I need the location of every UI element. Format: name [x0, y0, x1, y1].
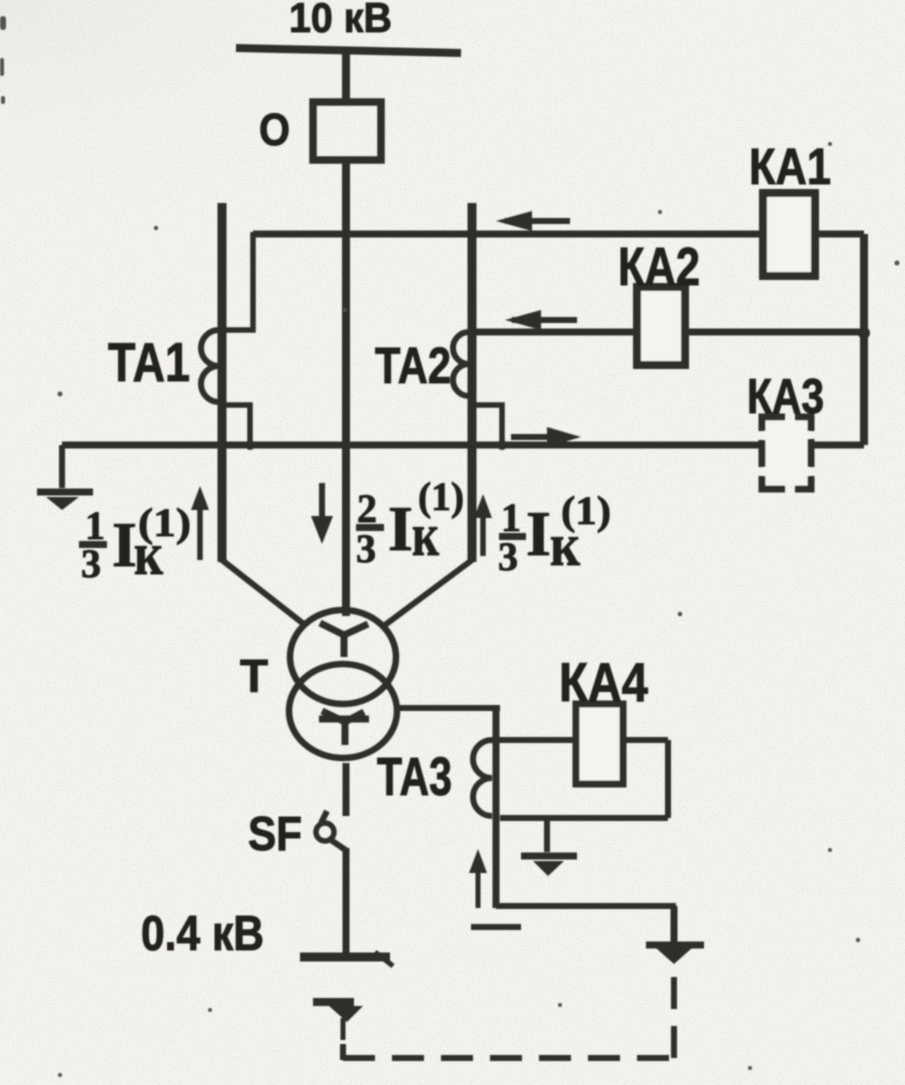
svg-text:ТА3: ТА3: [377, 747, 452, 807]
svg-text:(1): (1): [138, 500, 191, 545]
svg-text:КА3: КА3: [747, 370, 824, 424]
svg-text:SF: SF: [248, 808, 302, 861]
svg-text:КА1: КА1: [749, 138, 831, 195]
svg-text:КА2: КА2: [618, 237, 700, 297]
svg-text:Т: Т: [240, 650, 268, 702]
svg-text:(1): (1): [418, 474, 464, 519]
svg-text:10 кВ: 10 кВ: [289, 0, 392, 41]
svg-text:0.4 кВ: 0.4 кВ: [141, 907, 264, 961]
svg-text:ТА2: ТА2: [375, 337, 451, 394]
svg-text:О: О: [259, 104, 290, 155]
svg-text:3: 3: [356, 526, 376, 571]
svg-text:3: 3: [81, 541, 101, 586]
svg-text:3: 3: [498, 534, 518, 579]
svg-text:ТА1: ТА1: [108, 331, 190, 393]
svg-text:I: I: [526, 498, 551, 569]
svg-text:I: I: [388, 493, 413, 564]
svg-text:(1): (1): [561, 488, 611, 533]
svg-text:КА4: КА4: [559, 651, 648, 713]
